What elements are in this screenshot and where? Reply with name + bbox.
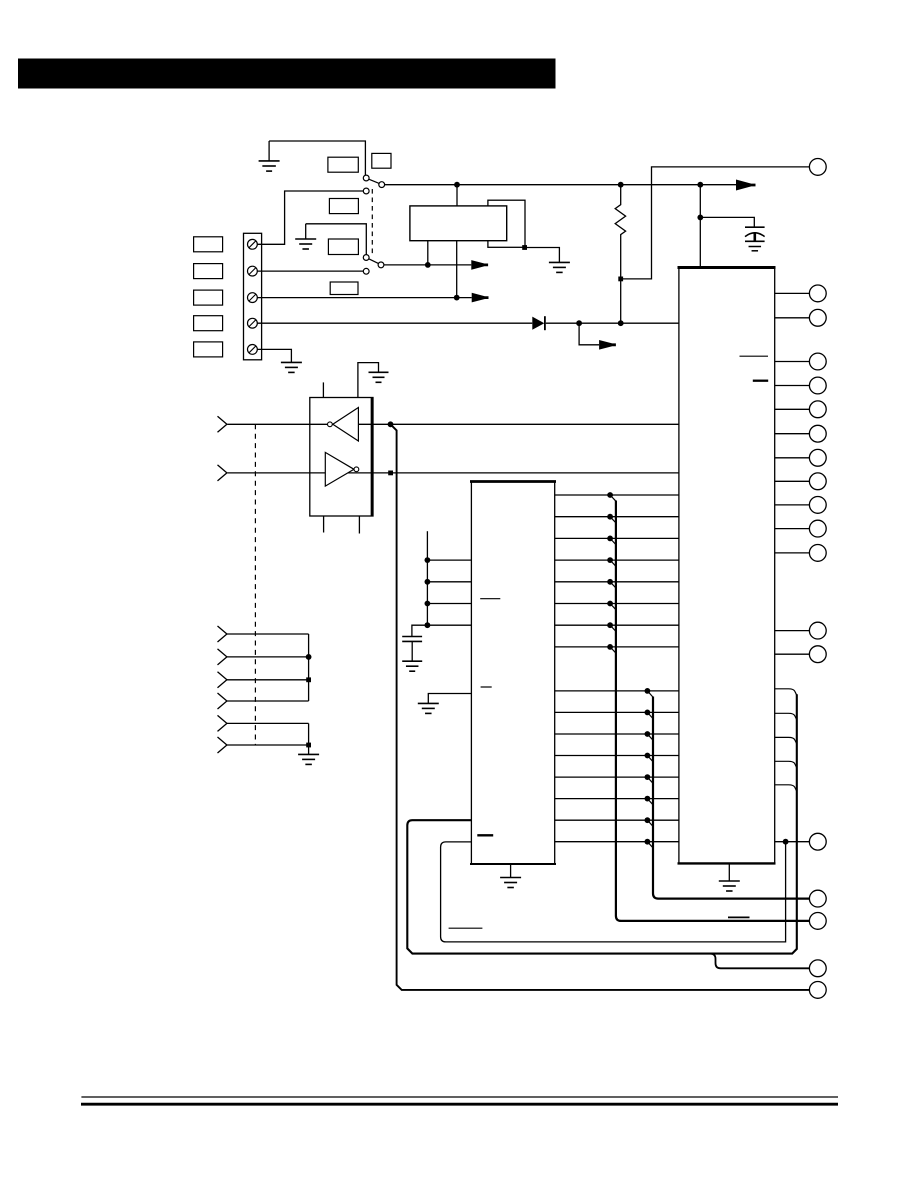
wire: handshake 3 tie — [227, 679, 309, 681]
wire: handshake 4 tie — [227, 700, 309, 702]
wire: address bus bit (lower group) y=777.1 — [555, 776, 679, 778]
connector circle: serial port line — [809, 982, 826, 999]
connector circle: port A y=433.7 — [809, 425, 826, 442]
connector marker: grounded pin 2 — [218, 737, 227, 753]
screw terminal at y=271.1 — [248, 266, 258, 276]
ground (capacitor C1) — [749, 247, 762, 256]
wire: grounded pin 2 — [227, 744, 309, 746]
ground (terminal 5) — [281, 362, 302, 372]
wire: S2 wiper clock select line — [384, 264, 472, 266]
connector marker: grounded pin 1 — [218, 715, 227, 731]
footer rule (thin) — [81, 1096, 838, 1098]
connector marker: handshake 1 — [218, 626, 227, 642]
oscillator module Y1 (front body) — [410, 206, 507, 241]
junction: R1 bottom node — [618, 277, 623, 282]
U3 pin stub (bottom right) — [358, 516, 360, 534]
U3 pin stub (top left) — [322, 382, 324, 397]
wire: to connector ground — [308, 745, 310, 754]
junction: osc out 1 / S2 line — [425, 262, 431, 268]
connector circle: data bus port — [809, 913, 826, 930]
connector circle: port A y=409.3 — [809, 401, 826, 418]
label box (right of S1, text redacted) — [372, 153, 391, 168]
connector circle: port A y=528.6 — [809, 520, 826, 537]
wire: address bus bit (lower group) y=841.7 — [555, 841, 679, 843]
wire: strap to capacitor C2 — [412, 625, 428, 636]
junction: reset line / resistor R1 bottom — [618, 320, 624, 326]
connector circle: U2 strobe out — [809, 833, 826, 850]
wire: data bus bit (upper group) y=603.5 — [555, 603, 679, 605]
connector circle: port A y=457.8 — [809, 449, 826, 466]
ground stem S2 — [305, 224, 307, 239]
title bar (redacted black banner) — [18, 59, 556, 89]
wire: diode cathode to IC U2 reset pin — [546, 322, 679, 324]
ground (switch S2 common) — [295, 239, 316, 249]
connector circle: port A y=504.9 — [809, 497, 826, 514]
wire: U2 pin into bus B trunk y=688.8 — [775, 689, 797, 696]
connector circle: port A y=552.9 — [809, 545, 826, 562]
inverter U3B (points right) — [325, 452, 354, 486]
wire: U2 pin into bus B trunk y=784.8 — [775, 785, 797, 792]
wire: data bus bit (upper group) y=560.1 — [555, 559, 679, 561]
U2 pin-name overbar (thin) — [740, 355, 769, 357]
U2 pin-name overbar (thick) — [753, 380, 768, 382]
wire: oscillator case to ground — [525, 248, 559, 263]
connector marker: handshake 4 — [218, 693, 227, 709]
wire: address bus bit (lower group) y=712.4 — [555, 711, 679, 713]
wire: U1 VSS pin to ground — [428, 694, 471, 704]
oscillator module Y1 (rear case outline) — [488, 200, 525, 247]
wire: ground to switch S1 pole — [269, 141, 365, 175]
wire: grounded pin 1 — [227, 722, 309, 724]
wire: U1 mode strap vertical (stub top) — [426, 531, 428, 625]
wire: U2 port B pin y=654.2 — [775, 653, 810, 655]
wire: U3 VSS to ground — [358, 363, 379, 398]
junction: VCC / C1 — [697, 215, 703, 221]
capacitor C2 — [402, 636, 422, 638]
connector circle: port B y=630.6 — [809, 622, 826, 639]
wire: address bus bit (lower group) y=755.5 — [555, 755, 679, 757]
U1 pin-name overbar (RD) — [481, 686, 492, 688]
wire: handshake tie vertical — [308, 634, 310, 701]
wire: U2 right pin to connector circle — [775, 841, 810, 843]
wire: S1 wiper to VCC rail with arrow — [385, 184, 736, 186]
wire: handshake 2 tie — [227, 656, 309, 658]
dashed cable boundary line — [254, 424, 256, 745]
wire: data bus bit (upper group) y=581.8 — [555, 581, 679, 583]
wire: U1 mode strap pin y=625.2 — [427, 624, 471, 626]
U1 pin-name overbar (WR, thick) — [477, 834, 493, 836]
oscillator pin: output 1 (bottom) — [427, 241, 429, 265]
wire: data bus bit (upper group) y=538.4 — [555, 537, 679, 539]
wire: address bus bit (lower group) y=734.0 — [555, 733, 679, 735]
wire: U2 port A pin y=457.8 — [775, 457, 810, 459]
diode D1 — [532, 317, 544, 330]
ground (connector shell) — [298, 754, 319, 764]
line driver U3 (inverter pair box) — [310, 398, 373, 517]
bus A vertical (serial lines to connector) — [391, 424, 810, 990]
wire: data bus bit (upper group) y=625.2 — [555, 624, 679, 626]
wire: handshake 1 tie — [227, 633, 309, 635]
junction: handshake tie — [306, 654, 312, 660]
U1 pin-name overbar (CS) — [480, 598, 500, 600]
terminal name label boxes (5, text redacted) — [194, 237, 223, 252]
inverter U3A (points left) — [333, 408, 359, 442]
connector circle: pulled-up output — [809, 159, 826, 176]
ground (U2 GND pin) — [719, 881, 740, 891]
connector circle: interrupt out — [809, 960, 826, 977]
switch S1 blade — [369, 179, 379, 183]
wire: U2 port A pin y=552.9 — [775, 552, 810, 554]
junction: handshake tie 2 — [306, 677, 311, 682]
wire: U2 port B pin y=630.6 — [775, 630, 810, 632]
wire: U2 port pin y=293.4 — [775, 292, 810, 294]
wire: address bus bit (lower group) y=820.2 — [555, 819, 679, 821]
junction: clock line / osc pin — [454, 295, 460, 301]
U3 pin stub (bottom left) — [323, 516, 325, 533]
wire: grounded pins vertical — [308, 723, 310, 745]
wire: address bus bit (lower group) y=690.9 — [555, 690, 679, 692]
wire: U2 port A pin y=481.3 — [775, 480, 810, 482]
wire: address bus bit (lower group) y=798.6 — [555, 798, 679, 800]
junction: RX line / bus A — [388, 471, 393, 476]
wire: U1 mode strap pin y=603.5 — [427, 603, 471, 605]
wire: data bus bit (upper group) y=646.9 — [555, 646, 679, 648]
wire: terminal 1 to S1 throw — [257, 191, 363, 244]
wire: U2 port A pin y=361.5 — [775, 361, 810, 363]
arrow (signal direction, VCC rail) — [736, 180, 756, 191]
wire: U2 port pin y=317.8 — [775, 317, 810, 319]
connector circle: port A y=481.3 — [809, 473, 826, 490]
wire: terminal 4 to diode D1 — [257, 322, 532, 324]
connector marker: handshake 2 — [218, 649, 227, 665]
label box (S2 upper, text redacted) — [328, 239, 358, 255]
wire: ground to switch S2 pole — [306, 224, 367, 255]
wire: TX line through driver to U2 — [227, 423, 679, 425]
wire: terminal 3 clock line — [257, 297, 471, 299]
wire: data bus bit (upper group) y=516.7 — [555, 516, 679, 518]
connector marker: TXD out — [218, 416, 227, 432]
bus 2 vertical (address bus trunk) — [653, 697, 809, 899]
capacitor C1 (polarized) — [745, 226, 765, 228]
arrow (reset signal) — [599, 340, 616, 350]
connector circle: port B y=654.2 — [809, 646, 826, 663]
wire: C2 to ground — [411, 641, 413, 661]
ground (oscillator case) — [549, 262, 570, 272]
branch of bus B to connector circle — [710, 954, 809, 969]
wire: U1 pin via bus C to U2/connector (thin) — [441, 842, 786, 942]
screw terminal at y=323.2 — [248, 318, 258, 328]
wire: terminal 2 to S2 throw — [257, 270, 363, 272]
wire: U2 port A pin y=409.3 — [775, 408, 810, 410]
junction: rail / oscillator pin — [454, 182, 460, 188]
switch S2 blade — [369, 259, 379, 264]
arrow (clock line) — [472, 293, 489, 303]
wire: U2 port A pin y=433.7 — [775, 433, 810, 435]
wire: U2 port A pin y=528.6 — [775, 528, 810, 530]
bus label overbar above bus1 line — [728, 916, 750, 918]
connector circle: port A y=361.5 — [809, 353, 826, 370]
switch S2 (rotary contact) — [363, 255, 384, 275]
junction: bus C / U2 output line — [783, 839, 789, 845]
wire: U2 pin into bus B trunk y=737.4 — [775, 737, 797, 744]
connector circle: port A y=385.5 — [809, 377, 826, 394]
junction: TX line / bus A — [388, 421, 394, 427]
wire: U2 ground stem — [728, 863, 730, 881]
label box (S1 upper, text redacted) — [328, 157, 358, 172]
wire: U2 pin into bus B trunk y=761.3 — [775, 761, 797, 768]
ground (U1 VSS) — [418, 703, 439, 713]
wire: U1 ground stem — [510, 864, 512, 878]
IC U2 (microcontroller, tall block right) — [679, 268, 775, 864]
junction: rail / capacitor branch — [697, 182, 703, 188]
wire: rail down to U2 VCC pin — [699, 185, 701, 268]
wire: to capacitor C1 — [700, 217, 754, 227]
junction: rail / resistor R1 — [618, 182, 624, 188]
connector marker: handshake 3 — [218, 672, 227, 688]
ground (U1 GND pin) — [500, 878, 521, 888]
wire: U1 pin to bus B (interrupt) — [407, 694, 797, 953]
screw terminal at y=349.4 — [248, 345, 258, 355]
label box (between switches, text redacted) — [329, 199, 358, 214]
wire: R1 node down to reset line — [620, 279, 622, 323]
bus 1 vertical (data bus trunk) — [616, 501, 810, 921]
wire: data bus bit (upper group) y=495.0 — [555, 494, 679, 496]
dashed gang link between S1 and S2 — [371, 189, 373, 256]
connector marker: RXD in — [218, 465, 227, 481]
junction: reset line / arrow tap — [576, 320, 582, 326]
label overbar above bus C line — [449, 927, 483, 929]
wire: arrow tap — [579, 323, 599, 345]
label box (below S2, text redacted) — [330, 282, 358, 295]
screw terminal at y=297.6 — [248, 293, 258, 303]
switch S1 (rotary contact) — [363, 175, 384, 194]
connector circle: port pin y=293.4 — [809, 285, 826, 302]
ground (C2) — [402, 661, 422, 671]
arrow (selected clock) — [471, 260, 488, 270]
oscillator pin: output 2 (bottom, crosses line) — [456, 241, 458, 298]
junction: case ground — [522, 245, 527, 250]
screw terminal at y=244.3 — [248, 239, 258, 249]
wire: U2 port A pin y=504.9 — [775, 504, 810, 506]
ground (switch S1 common) — [259, 161, 280, 171]
wire: U2 pin into bus B trunk y=713.3 — [775, 713, 797, 720]
connector circle: port pin y=317.8 — [809, 309, 826, 326]
footer rule (thick) — [81, 1103, 838, 1106]
ground (U3) — [369, 372, 389, 382]
IC U1 (peripheral controller, middle block) — [471, 482, 554, 865]
wire: U2 port A pin y=385.5 — [775, 385, 810, 387]
wire: RX line through receiver to U2 — [227, 472, 679, 474]
wire: R1 node to connector circle (top right) — [621, 167, 810, 279]
wire: U1 mode strap pin y=581.8 — [427, 581, 471, 583]
terminal block J1 (5 screw terminals) — [244, 233, 262, 359]
wire: terminal 5 to ground — [257, 349, 291, 362]
junction: grounded pins — [306, 743, 311, 748]
wire: U1 mode strap pin y=560.1 — [427, 559, 471, 561]
connector circle: address bus port — [809, 890, 826, 907]
ground stem S1 — [268, 141, 270, 161]
oscillator pin: VCC (top) — [456, 185, 458, 206]
resistor R1 — [615, 185, 625, 279]
